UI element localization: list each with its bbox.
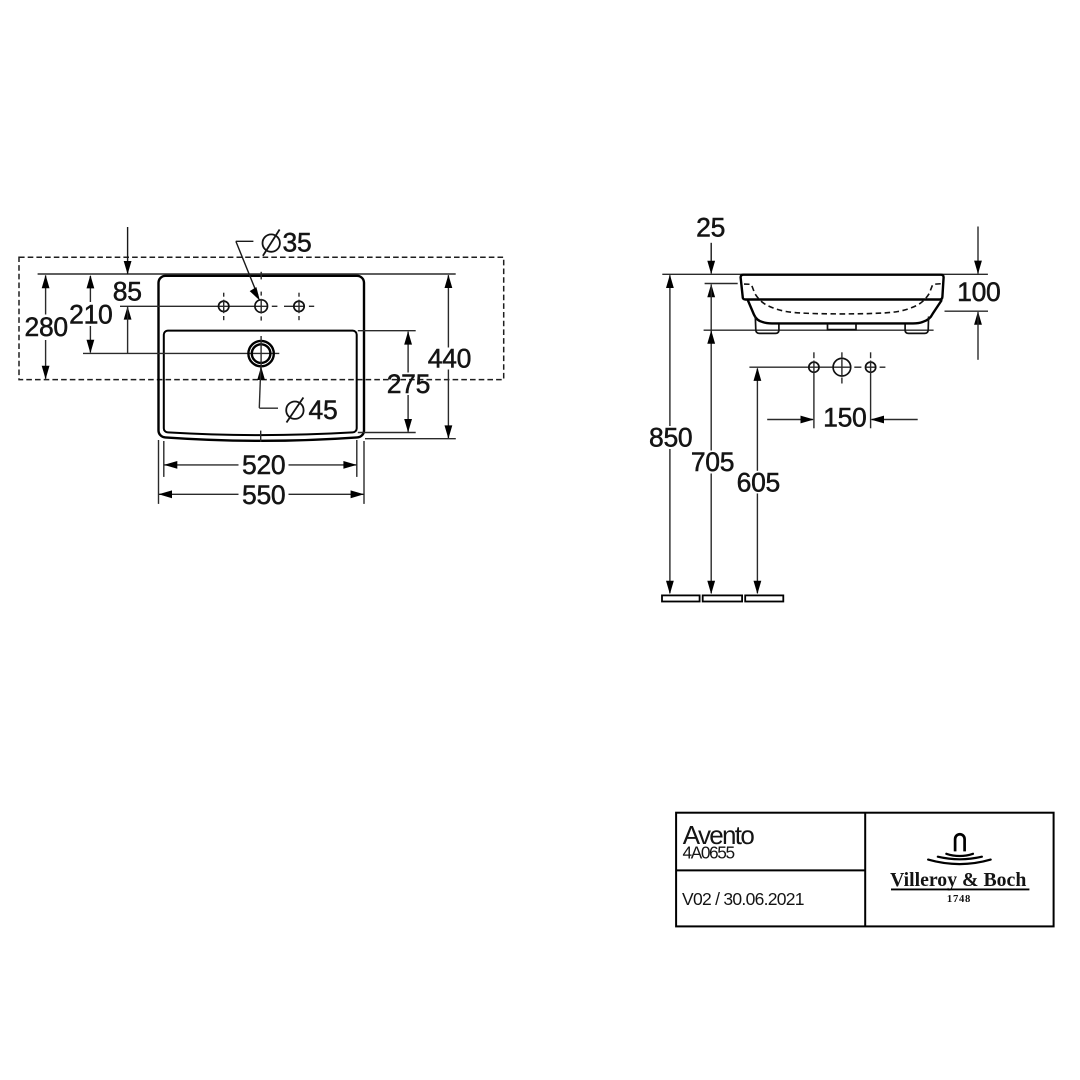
logo wave 2: [938, 857, 982, 860]
svg-text:45: 45: [309, 395, 338, 425]
product name: [683, 820, 755, 850]
label D35: [263, 227, 312, 257]
svg-text:705: 705: [691, 447, 734, 477]
label D35 leader: [236, 241, 260, 300]
svg-text:1748: 1748: [947, 893, 971, 905]
basin inner rim outline: [164, 331, 357, 435]
svg-text:25: 25: [696, 213, 725, 243]
dimension 280: [25, 275, 68, 379]
centre drain boss: [828, 324, 857, 330]
drain hole: [248, 336, 273, 372]
basin rim profile: [741, 275, 944, 300]
mounting hole left: [809, 352, 819, 428]
centre tick bottom edge: [260, 431, 262, 442]
dimension 210: [69, 275, 112, 353]
svg-text:440: 440: [428, 343, 471, 373]
floor tile 3: [745, 595, 783, 601]
logo wordmark: [890, 869, 1026, 891]
logo wave 3: [928, 860, 991, 865]
drain centreline: [83, 352, 279, 354]
basin outer outline: [158, 276, 364, 441]
tap hole centre: [255, 292, 268, 321]
title block frame: [676, 813, 1054, 927]
logo fountain arch: [955, 834, 965, 851]
svg-text:210: 210: [69, 299, 112, 329]
dimension 440: [365, 275, 471, 439]
dimension 275: [358, 331, 430, 433]
hidden bowl line (dashed): [744, 284, 942, 314]
floor tile 2: [703, 595, 742, 601]
svg-text:850: 850: [649, 423, 692, 453]
svg-text:520: 520: [242, 450, 285, 480]
dimension 150: [767, 403, 918, 433]
svg-text:V02 / 30.06.2021: V02 / 30.06.2021: [682, 889, 804, 909]
svg-text:35: 35: [283, 227, 312, 257]
logo 1748: [947, 893, 971, 905]
mounting hole right: [866, 352, 876, 428]
tap hole right: [294, 293, 304, 321]
logo underline: [891, 888, 1029, 890]
svg-text:605: 605: [737, 468, 780, 498]
underside extension line: [704, 329, 934, 331]
svg-text:150: 150: [823, 403, 866, 433]
mounting hole centre: [833, 352, 851, 383]
top extension line: [38, 273, 456, 275]
svg-text:275: 275: [387, 369, 430, 399]
wall installation zone dashed rect: [19, 257, 504, 379]
svg-text:Villeroy & Boch: Villeroy & Boch: [890, 869, 1026, 891]
dimension 100: [945, 227, 1001, 360]
25 lower extension line: [705, 283, 738, 285]
dimension 550: [159, 440, 365, 510]
logo wave 1: [946, 854, 973, 856]
tap hole centreline: [120, 305, 314, 307]
svg-text:100: 100: [957, 277, 1000, 307]
dimension 850: [649, 275, 692, 594]
floor tile 1: [662, 595, 700, 601]
dimension 705: [691, 285, 734, 595]
tap hole left: [219, 293, 229, 321]
dimension 85: [113, 227, 142, 353]
dimension 520: [164, 440, 357, 480]
svg-text:550: 550: [242, 480, 285, 510]
label D45 leader: [257, 367, 278, 409]
dimension 25: [696, 213, 725, 298]
dimension 605: [737, 368, 780, 595]
product number: [683, 842, 735, 862]
top extension line: [662, 273, 988, 275]
centre tick top edge: [260, 272, 262, 280]
right foot: [905, 317, 929, 334]
version date: [682, 889, 804, 909]
svg-text:85: 85: [113, 276, 142, 306]
bowl outline: [748, 300, 942, 324]
svg-text:280: 280: [25, 312, 68, 342]
left foot: [755, 317, 779, 334]
label D45: [286, 395, 337, 425]
svg-text:4A0655: 4A0655: [683, 842, 735, 862]
mounting hole centreline: [749, 366, 885, 368]
